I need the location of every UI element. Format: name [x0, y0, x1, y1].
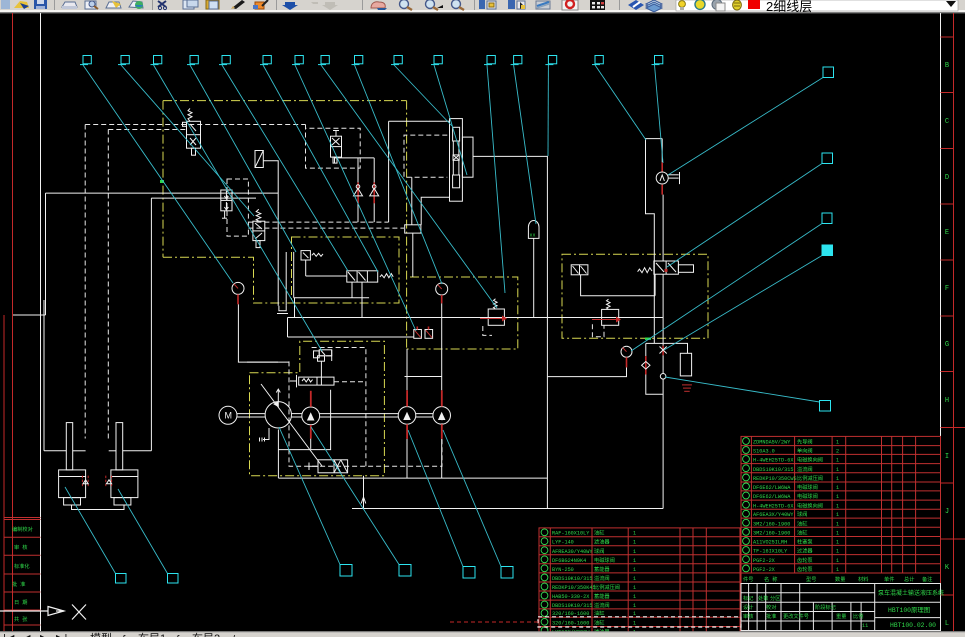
toolbar icon: pan hand — [371, 2, 385, 8]
svg-text:1: 1 — [836, 549, 839, 555]
svg-text:电磁球阀: 电磁球阀 — [797, 483, 818, 491]
svg-text:1: 1 — [633, 567, 636, 573]
pump port red stems — [310, 390, 443, 439]
shaft lines — [237, 414, 433, 417]
svg-text:单件: 单件 — [884, 575, 894, 583]
enclosure: control block box2 — [292, 237, 400, 303]
pilot dashed: left long vertical (cylinder 1) — [84, 125, 86, 439]
return riser arrow — [361, 497, 366, 504]
leader R4 — [664, 256, 822, 351]
accumulator AC1 capsule — [528, 221, 539, 239]
svg-text:DBDS10K10/315: DBDS10K10/315 — [753, 467, 793, 473]
enclosure: main manifold boundary top — [163, 100, 407, 102]
toolbar icon: properties — [479, 0, 485, 9]
wire: assembly outlet to accumulator line — [473, 156, 547, 508]
toolbar icon: open — [14, 1, 29, 8]
wire: tank stub U — [279, 306, 286, 311]
layer color swatch red — [748, 0, 760, 9]
BOM header row green — [743, 575, 932, 583]
svg-text:电磁球阀: 电磁球阀 — [594, 556, 615, 564]
motor M1 — [219, 406, 237, 424]
toolbar icon: help — [628, 0, 644, 10]
wire: cylinder2 right edge — [150, 198, 152, 451]
node: test circle N1 — [660, 374, 666, 380]
red check D1 with diamond — [642, 356, 650, 374]
wire: cylinder bottoms — [44, 450, 66, 452]
svg-text:阶段标记: 阶段标记 — [815, 603, 836, 611]
svg-text:齿轮泵: 齿轮泵 — [797, 556, 813, 564]
toolbar icon: designcenter — [508, 0, 515, 9]
toolbar icon: plot — [62, 2, 77, 7]
svg-text:油缸: 油缸 — [797, 519, 807, 527]
pump P3 — [398, 407, 416, 425]
leader R2 — [667, 164, 822, 268]
svg-text:油缸: 油缸 — [594, 529, 604, 537]
wire: junction block drop to box3 — [412, 233, 414, 277]
svg-text:1: 1 — [633, 558, 636, 564]
svg-text:件号: 件号 — [743, 575, 753, 583]
wire: gauge3 branch — [547, 367, 626, 376]
svg-text:分区: 分区 — [770, 594, 780, 602]
wire: right column to return — [662, 379, 664, 509]
svg-text:DBDS10K10/315: DBDS10K10/315 — [552, 576, 592, 582]
svg-text:油缸: 油缸 — [797, 529, 807, 537]
valve V4 sequence valve — [221, 190, 232, 218]
svg-text:比例减压阀: 比例减压阀 — [594, 583, 620, 591]
wire: second drain drop — [285, 252, 287, 306]
svg-text:油缸: 油缸 — [594, 619, 604, 627]
BOM left table text — [552, 529, 636, 636]
svg-text:球阀: 球阀 — [797, 510, 807, 518]
pump P1 drain to tank — [260, 428, 270, 442]
svg-text:A11VO25ILRH: A11VO25ILRH — [753, 539, 787, 545]
svg-text:材料: 材料 — [858, 575, 868, 583]
svg-text:共 张: 共 张 — [14, 615, 28, 623]
svg-text:▶: ▶ — [40, 633, 49, 637]
toolbar icon: copy — [183, 0, 194, 9]
toolbar icon: cut — [158, 1, 166, 7]
leader B3 — [279, 427, 340, 565]
svg-text:重量: 重量 — [836, 612, 846, 620]
wire: lower bus — [288, 336, 415, 338]
svg-text:滤油器: 滤油器 — [594, 538, 610, 546]
wire: gauge2 column mid — [662, 195, 664, 261]
wire: motor link — [247, 361, 278, 363]
wire: cylinder1 left edge — [43, 300, 45, 451]
pump P1 variable main pump — [265, 389, 291, 428]
grip squares bottom row — [116, 574, 127, 584]
wire: plug to drop — [263, 161, 278, 306]
svg-text:备注: 备注 — [922, 575, 932, 583]
leader R3 — [631, 224, 822, 352]
wire: return line long — [352, 508, 663, 510]
toolbar separator — [619, 0, 620, 10]
svg-text:溢流阀: 溢流阀 — [594, 601, 610, 609]
frame: left red trim line — [12, 13, 14, 631]
toolbar separator — [152, 0, 153, 10]
wire: pump4 drain — [441, 439, 443, 478]
svg-text:1: 1 — [633, 540, 636, 546]
combo dropdown arrow — [946, 1, 956, 7]
svg-text:蓄能器: 蓄能器 — [594, 592, 610, 600]
wire: pump manifold cross — [405, 376, 442, 378]
leader B4 — [311, 427, 399, 565]
wire: right solid box top — [389, 120, 450, 122]
svg-text:DF6BG24N9K4: DF6BG24N9K4 — [552, 558, 586, 564]
svg-text:标准化: 标准化 — [14, 562, 30, 570]
toolbar icon: redo2 disabled — [322, 2, 338, 10]
leader L5 — [222, 65, 348, 271]
svg-text:1: 1 — [836, 458, 839, 464]
BOM right table text — [753, 438, 839, 574]
wire: bus left drop — [287, 318, 289, 338]
svg-text:布局2: 布局2 — [192, 632, 220, 637]
svg-text:数量: 数量 — [835, 575, 845, 583]
leader L1 — [83, 65, 233, 283]
svg-text:HBT100.02.00: HBT100.02.00 — [890, 622, 936, 629]
leader B6 — [443, 430, 501, 567]
check plug C1 — [255, 151, 263, 168]
leader L16 — [655, 65, 664, 163]
toolbar icon: save — [34, 0, 47, 9]
red pilot valves between cylinders — [82, 476, 111, 488]
svg-text:齿轮泵: 齿轮泵 — [797, 565, 813, 573]
svg-text:1: 1 — [633, 603, 636, 609]
svg-text:1: 1 — [836, 558, 839, 564]
stroking cylinder SC1 — [290, 375, 334, 388]
svg-text:单向阀: 单向阀 — [797, 447, 813, 455]
box2 main valve V3 — [295, 271, 394, 318]
wire: check column left — [335, 158, 375, 163]
svg-text:1: 1 — [836, 494, 839, 500]
toolbar separator pair — [652, 0, 653, 10]
svg-text:1: 1 — [836, 512, 839, 518]
svg-text:REDKP10/350CWS: REDKP10/350CWS — [753, 476, 797, 482]
wire: gauge2 loop left — [646, 139, 663, 344]
leader L6 — [263, 65, 378, 272]
pilot dashed: servo link — [334, 381, 366, 383]
svg-text:批 准: 批 准 — [12, 580, 26, 588]
frame: right white border — [940, 13, 942, 631]
layer state icon: plot globe — [712, 0, 722, 9]
pilot dashed: accumulator assembly box left — [404, 135, 447, 177]
box4 valve V7 with spring — [638, 261, 694, 274]
toolbar icon: undo — [282, 2, 298, 10]
svg-text:编制校对: 编制校对 — [12, 525, 33, 533]
svg-text:名 称: 名 称 — [764, 575, 778, 583]
svg-text:S10A3.0: S10A3.0 — [753, 449, 775, 455]
wire: servo drop — [320, 361, 322, 377]
enclosure: main manifold boundary left — [162, 101, 164, 258]
toolbar icon: publish — [106, 2, 121, 8]
svg-text:DF6E62/LW6WA: DF6E62/LW6WA — [753, 485, 791, 491]
layers toolbar icon: layers stack — [646, 0, 662, 8]
leader R1 — [668, 78, 823, 176]
leader B1 — [65, 487, 116, 574]
svg-text:1: 1 — [836, 539, 839, 545]
svg-text:◀: ◀ — [22, 633, 31, 637]
enclosure: main manifold boundary bottom step — [163, 257, 292, 303]
svg-text:RAF-160X10LY: RAF-160X10LY — [552, 531, 590, 537]
relief valve R2 in box3 — [480, 299, 507, 326]
toolbar icon: markup — [562, 0, 578, 10]
svg-text:1: 1 — [836, 521, 839, 527]
svg-text:1: 1 — [633, 585, 636, 591]
grip squares top row — [83, 56, 91, 64]
svg-text:处数: 处数 — [758, 594, 769, 602]
wire: check vertical 2 — [373, 158, 375, 222]
leader L7 — [295, 65, 416, 331]
pilot dashed: long horizontal pair lower — [248, 227, 404, 229]
pilot dashed: relief valve R2 drain — [483, 326, 492, 335]
svg-text:1: 1 — [633, 611, 636, 617]
wire: pump2 control loop — [278, 390, 330, 450]
svg-text:油缸: 油缸 — [594, 609, 604, 617]
wire: tank base — [277, 313, 288, 315]
wire: cylinder link U — [72, 505, 125, 510]
svg-text:电磁球阀: 电磁球阀 — [797, 492, 818, 500]
svg-text:BYN-250: BYN-250 — [552, 567, 574, 573]
wire: right column through box4 — [654, 274, 656, 296]
enclosure: pump group stepped box — [250, 341, 385, 475]
layer state icon: sun — [695, 0, 705, 9]
pilot dashed: box around valve V4 — [227, 179, 248, 236]
wire: pump bottom manifold — [278, 477, 547, 479]
frame: zone letters — [945, 62, 950, 628]
frame: left zone tick — [13, 314, 46, 316]
svg-text:1: 1 — [836, 467, 839, 473]
selected row dashed highlight — [538, 617, 741, 627]
wire: swash plate diagonal — [261, 384, 322, 466]
pilot dashed: relief valve R3 drain — [592, 324, 604, 337]
box2 solenoid pilot valve — [294, 251, 369, 298]
cylinder CY1 barrel details — [59, 423, 86, 505]
svg-text:1: 1 — [836, 567, 839, 573]
svg-text:电磁换向阀: 电磁换向阀 — [797, 501, 823, 509]
leader B2 — [118, 489, 168, 574]
pilot dashed: outer top line — [85, 124, 305, 126]
leader L15 — [595, 65, 646, 140]
valve V5 relief with spring top — [253, 209, 265, 247]
wire: check vertical 1 — [357, 158, 359, 222]
gauge G2 with test point — [656, 162, 679, 194]
svg-text:球阀: 球阀 — [594, 547, 604, 555]
svg-text:2: 2 — [836, 449, 839, 455]
svg-text:PGF2-2X: PGF2-2X — [753, 567, 776, 573]
toolbar separator — [276, 0, 277, 10]
red unloader pair U1 — [414, 327, 433, 339]
wire: right column lower — [662, 274, 664, 346]
layer state icon: lock yellow — [733, 0, 742, 10]
toolbar icon: redo (disabled) — [311, 2, 318, 4]
svg-text:布局1: 布局1 — [138, 632, 166, 637]
wire: gauge2 column upper — [661, 139, 663, 163]
red check D2 on riser — [660, 346, 667, 355]
leader L12 — [487, 65, 505, 293]
pilot dashed: inner top line — [108, 129, 188, 131]
svg-text:过滤器: 过滤器 — [797, 547, 813, 555]
relief valve R3 in box4 — [592, 299, 621, 325]
toolbar icon: zoom realtime — [400, 0, 409, 9]
wire: right column below check — [662, 355, 664, 374]
toolbar icon: tool palettes — [536, 1, 550, 9]
svg-text:标记: 标记 — [743, 594, 753, 602]
toolbar icon: zoom previous — [452, 0, 461, 9]
pilot dashed: pump enclosure top — [312, 348, 366, 467]
svg-text:比例: 比例 — [853, 612, 863, 620]
toolbar icon: format painter — [232, 0, 245, 9]
svg-text:HAB50-330-2X: HAB50-330-2X — [552, 594, 590, 600]
svg-text:审核: 审核 — [743, 612, 753, 620]
svg-text:DBDS10K10/315: DBDS10K10/315 — [552, 603, 592, 609]
svg-text:3M2/160-1900: 3M2/160-1900 — [753, 531, 790, 537]
wire: tank return riser — [363, 476, 365, 509]
pilot dashed: box around valve V2 — [306, 125, 361, 169]
pilot dashed: second long vertical (cylinder 2) — [107, 130, 109, 439]
BOM left item number circles — [541, 529, 548, 634]
wire: tank block top — [646, 343, 688, 353]
leader L10 — [394, 65, 452, 126]
svg-text:电磁换向阀: 电磁换向阀 — [797, 456, 823, 464]
enclosure: right valve box4 — [562, 254, 708, 338]
layer combo field — [676, 0, 958, 11]
pilot dashed: pump enclosure — [289, 361, 442, 466]
svg-text:柱塞泵: 柱塞泵 — [797, 537, 813, 545]
toolbar icon: match properties — [255, 2, 264, 9]
leader L14 — [547, 65, 549, 156]
svg-text:H-4WEH25TD-6X: H-4WEH25TD-6X — [753, 458, 794, 464]
valve V2 two position valve — [331, 131, 342, 164]
svg-text:320/160-1600: 320/160-1600 — [552, 621, 589, 627]
svg-text:1: 1 — [836, 476, 839, 482]
damper cylinder SC2 — [309, 460, 348, 473]
toolbar separator — [474, 0, 475, 10]
svg-text:1: 1 — [836, 485, 839, 491]
leader L11 — [434, 65, 467, 175]
leader L3 — [154, 65, 323, 351]
leader L9 — [355, 65, 443, 284]
svg-text:1: 1 — [633, 549, 636, 555]
wire: pump2 loop stub — [310, 439, 312, 449]
svg-text:ZDMNDA5V/2WY: ZDMNDA5V/2WY — [753, 440, 791, 446]
leader L13 — [514, 65, 536, 224]
check valve pair CV1 — [354, 182, 363, 203]
gauge G1 — [232, 282, 244, 304]
wire: long horizontal main A — [46, 192, 279, 194]
green snap mark on yellow line — [160, 180, 164, 183]
svg-text:REDKP10/350K45: REDKP10/350K45 — [552, 585, 596, 591]
svg-text:总计: 总计 — [904, 575, 914, 583]
svg-text:1: 1 — [633, 594, 636, 600]
tank T1 — [680, 353, 692, 391]
toolbar icon: zoom window — [426, 0, 435, 9]
title block green text — [743, 589, 944, 629]
box4 valve V6 pilot operated — [571, 265, 588, 275]
wire: pump1 suction drop — [277, 430, 279, 479]
gauge G3 — [621, 346, 632, 367]
toolbar icon: new — [1, 0, 10, 9]
svg-text:审 核: 审 核 — [14, 543, 28, 551]
leader R5 — [665, 377, 820, 402]
leader L8 — [321, 65, 497, 308]
svg-text:校对: 校对 — [766, 603, 776, 611]
junction block J1 — [405, 225, 421, 233]
wire: tank block left — [645, 343, 647, 356]
pump P2 — [302, 407, 320, 425]
svg-text:设计: 设计 — [743, 603, 753, 611]
wire: assembly lower horizontal — [421, 197, 449, 225]
svg-text:PGF2-2X: PGF2-2X — [753, 558, 776, 564]
svg-text:批准: 批准 — [766, 612, 776, 620]
wire: assembly lower verticals — [411, 177, 413, 225]
toolbar separator — [362, 0, 363, 10]
svg-text:AFREA30/Y40WY: AFREA30/Y40WY — [552, 549, 593, 555]
svg-text:LYF-140: LYF-140 — [552, 540, 574, 546]
leader B5 — [408, 430, 463, 567]
selected polyline red dashes to left — [450, 621, 538, 623]
layer state icon: bulb — [679, 1, 686, 8]
wire: left drop vertical — [45, 193, 47, 315]
wire: right solid box left vertical — [388, 121, 390, 222]
svg-text:1: 1 — [836, 531, 839, 537]
svg-text:溢流阀: 溢流阀 — [797, 465, 813, 473]
toolbar icon: etransmit — [129, 1, 143, 8]
toolbar icon: preview — [85, 1, 96, 9]
wire: pump3 drain — [406, 439, 408, 478]
BOM right item number circles — [743, 438, 750, 572]
svg-text:1: 1 — [633, 621, 636, 627]
pump P4 — [433, 407, 451, 425]
svg-text:蓄能器: 蓄能器 — [594, 565, 610, 573]
grip squares right column — [823, 67, 834, 78]
gauge G4 — [436, 283, 448, 303]
valve V1 reducing valve with spring — [183, 108, 201, 155]
wire: box4 internal L — [581, 275, 656, 296]
toolbar icon: quickcalc — [590, 0, 605, 10]
svg-text:|◀: |◀ — [3, 633, 15, 637]
wire: box3 to pump manifold vertical — [441, 318, 443, 391]
wire: long horizontal main B — [151, 197, 256, 199]
check valve pair CV2 — [370, 182, 379, 203]
leader L4 — [190, 65, 296, 252]
frame: right zone ticks — [941, 37, 965, 595]
svg-text:DF6E62/LW6WA: DF6E62/LW6WA — [753, 494, 791, 500]
svg-text:1: 1 — [633, 531, 636, 537]
enclosure: main manifold boundary right vertical — [406, 101, 408, 349]
svg-text:型号: 型号 — [806, 575, 816, 583]
pilot dashed: long horizontal pair upper — [248, 221, 388, 223]
wire: tank block left lower — [646, 375, 663, 395]
svg-text:日 期: 日 期 — [14, 599, 28, 606]
frame: left white border — [40, 13, 42, 631]
frame: right red trim line — [953, 13, 955, 631]
wire: accumulator drop — [533, 238, 535, 317]
wire: gauge G4 drop — [441, 303, 443, 317]
accumulator assembly A1 outer — [450, 119, 474, 202]
wire: gauge1 drop — [238, 304, 289, 362]
svg-text:1: 1 — [836, 440, 839, 446]
svg-text:1: 1 — [836, 503, 839, 509]
leader L2 — [121, 65, 254, 216]
enclosure: pump-side box3 — [407, 277, 518, 349]
svg-text:更改文件号: 更改文件号 — [783, 612, 809, 620]
frame: left table red edge — [3, 315, 5, 631]
cylinder CY2 barrel details — [111, 423, 138, 505]
wire: pump3 riser — [406, 349, 408, 390]
svg-text:比例减压阀: 比例减压阀 — [797, 474, 823, 482]
svg-text:1: 1 — [633, 576, 636, 582]
svg-text:溢流阀: 溢流阀 — [594, 574, 610, 582]
